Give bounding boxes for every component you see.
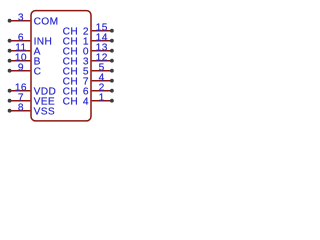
svg-text:COM: COM — [34, 16, 59, 27]
svg-text:VSS: VSS — [34, 106, 55, 117]
svg-text:CH 4: CH 4 — [63, 96, 89, 107]
svg-text:1: 1 — [99, 92, 105, 103]
svg-text:9: 9 — [18, 62, 24, 73]
svg-text:8: 8 — [18, 102, 24, 113]
svg-text:3: 3 — [18, 12, 24, 23]
svg-text:C: C — [34, 66, 42, 77]
